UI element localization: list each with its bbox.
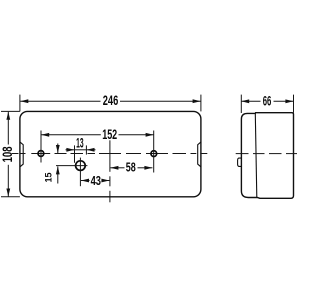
big hole horizontal centerline [56,165,87,167]
mounting hole left [38,151,44,157]
dimension 43 [81,180,109,182]
svg-text:152: 152 [102,127,117,142]
left hole vertical extension [40,131,42,163]
right edge tab (front view) [198,142,201,167]
dimension 66 [241,95,293,113]
svg-text:43: 43 [91,173,101,188]
big hole vertical centerline [79,158,81,187]
dimension 15 [57,144,59,184]
horizontal centerline (front view) [12,153,208,155]
side view left clip bump [238,158,242,166]
svg-text:15: 15 [44,173,54,183]
vertical centerline (front view) [109,140,111,202]
svg-text:58: 58 [126,159,136,174]
front view outline [20,111,201,196]
left edge tab (front view) [20,142,23,167]
svg-text:13: 13 [76,136,84,151]
svg-text:66: 66 [263,93,272,108]
svg-text:246: 246 [103,93,119,108]
right hole vertical extension [153,131,155,173]
side view centerline [236,153,297,155]
side view lens step line [255,113,256,197]
dimension 246 [20,95,201,112]
dimension 108 [1,111,20,196]
dimension 13 [66,145,96,162]
side view outline [241,113,293,199]
mounting hole right [151,151,157,157]
svg-text:108: 108 [0,146,15,162]
dimension 58 [110,167,152,169]
dimension 152 [41,134,153,136]
cable hole (big) [76,161,86,171]
